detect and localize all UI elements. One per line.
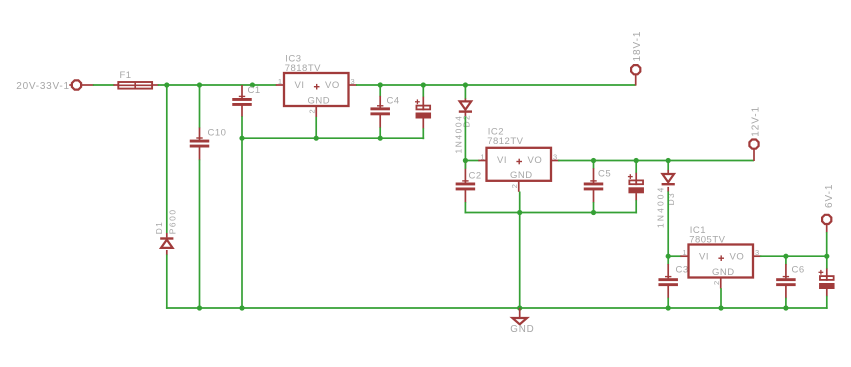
terminal pad 12V-1 <box>749 140 758 149</box>
wire 6V pad stub to output net <box>826 232 828 256</box>
polarized capacitor column upper wire <box>422 85 424 97</box>
svg-text:1N4004: 1N4004 <box>655 185 665 228</box>
svg-text:18V-1: 18V-1 <box>632 31 643 62</box>
capacitor C3 <box>658 277 678 287</box>
fuse F1 left pin stub <box>114 84 119 86</box>
svg-text:12V-1: 12V-1 <box>751 106 762 137</box>
junction GND symbol column / ground rail <box>517 305 522 310</box>
fuse F1 <box>118 82 152 89</box>
IC1 pin 3 <box>753 255 761 257</box>
diode D3 (1N4004) <box>662 174 675 185</box>
diode D2 pin stubs <box>464 99 466 118</box>
pin stub 6V pad <box>826 224 828 232</box>
junction at D1 column on input net <box>164 82 169 87</box>
capacitor C1 pin stubs <box>241 85 243 117</box>
wire input pad to fuse <box>93 84 115 86</box>
capacitor C3 column lower wire <box>667 298 669 308</box>
svg-text:1: 1 <box>278 77 282 86</box>
IC3 pin 1 <box>276 84 284 86</box>
svg-text:7818TV: 7818TV <box>285 63 321 74</box>
input terminal pad 20V-33V-1 <box>72 80 81 89</box>
junction C5 / rail <box>591 210 596 215</box>
svg-text:1: 1 <box>480 153 484 162</box>
voltage regulator IC2 7812TV <box>487 148 552 181</box>
junction near C1 on input net <box>250 82 255 87</box>
junction D3-C3 column / ground rail <box>666 305 671 310</box>
capacitor C2 pin stubs <box>464 161 466 203</box>
capacitor C5 pin stubs <box>593 168 595 202</box>
svg-text:C6: C6 <box>792 265 805 276</box>
ground symbol pin stub <box>519 308 521 318</box>
capacitor C1 column wire down to ground rail <box>241 116 243 308</box>
IC2 pin 1 <box>478 160 486 162</box>
svg-text:GND: GND <box>510 324 534 335</box>
svg-text:7812TV: 7812TV <box>487 136 523 147</box>
svg-text:7805TV: 7805TV <box>689 235 725 246</box>
svg-text:VO: VO <box>730 252 745 263</box>
junction C1 / ground rail <box>239 305 244 310</box>
IC2 pin 2 (GND) <box>518 181 520 192</box>
svg-text:20V-33V-1: 20V-33V-1 <box>16 81 69 92</box>
wire IC2 GND pin down to bottom ground rail <box>519 192 521 309</box>
terminal pad 18V-1 <box>631 65 640 74</box>
svg-text:3: 3 <box>553 153 557 162</box>
junction at polarized cap 2 column <box>634 158 639 163</box>
IC3 pin 3 <box>349 84 357 86</box>
capacitor C3 pin stubs <box>667 264 669 298</box>
capacitor C2 <box>456 181 476 191</box>
svg-text:F1: F1 <box>120 70 132 81</box>
bottom ground rail <box>166 307 828 309</box>
svg-text:VI: VI <box>295 80 305 91</box>
wire fuse to IC3 VI pin <box>158 84 277 86</box>
ground symbol GND <box>512 318 527 324</box>
junction at D2 column <box>463 82 468 87</box>
diode D1 pin stubs <box>166 233 168 255</box>
fuse F1 right pin stub <box>152 84 159 86</box>
pin stub 12V pad <box>753 149 755 161</box>
wire IC3 GND pin to rail <box>315 117 317 138</box>
polarized capacitor 2 column upper wire <box>635 161 637 174</box>
svg-text:2: 2 <box>307 109 316 113</box>
input pad left tick <box>69 84 71 86</box>
polarized capacitor 2 column lower wire <box>635 200 637 213</box>
svg-text:D2: D2 <box>462 114 472 128</box>
capacitor C4 column lower wire <box>379 127 381 138</box>
svg-text:1: 1 <box>682 248 686 257</box>
svg-text:VI: VI <box>699 252 709 263</box>
capacitor C2 upper green segment <box>464 161 466 169</box>
junction at C10 column on input net <box>197 82 202 87</box>
IC1 pin 1 <box>680 255 688 257</box>
polarized capacitor (12V rail) <box>628 174 644 193</box>
svg-text:C10: C10 <box>208 128 227 139</box>
svg-text:P600: P600 <box>167 208 177 234</box>
junction IC2 GND / rail <box>517 210 522 215</box>
polarized capacitor column lower wire <box>422 128 424 139</box>
polarized capacitor 3 column upper wire <box>826 256 828 269</box>
svg-text:GND: GND <box>712 267 735 278</box>
IC2 pin 3 <box>551 160 559 162</box>
svg-text:VO: VO <box>325 80 340 91</box>
capacitor C6 pin stubs <box>785 264 787 298</box>
svg-text:C3: C3 <box>676 265 689 276</box>
terminal pad 6V-1 <box>822 215 831 224</box>
junction C6 / ground rail <box>783 305 788 310</box>
diode D1 (P600) <box>160 237 173 248</box>
diode D3 column lower wire <box>667 191 669 256</box>
capacitor C4 <box>370 106 390 116</box>
svg-text:3: 3 <box>755 248 759 257</box>
svg-text:GND: GND <box>308 95 331 106</box>
capacitor C2 column lower wire <box>464 202 466 213</box>
polarized capacitor (18V rail) <box>415 99 431 118</box>
junction C4 / ground rail <box>378 136 383 141</box>
junction IC1 GND / ground rail <box>718 305 723 310</box>
polarized capacitor 2 pin stubs <box>635 173 637 201</box>
svg-text:2: 2 <box>510 184 519 188</box>
capacitor C5 column upper wire <box>593 161 595 169</box>
wire IC1 GND pin down to ground rail <box>720 288 722 308</box>
junction IC3 GND pin / ground rail <box>314 136 319 141</box>
svg-text:D1: D1 <box>154 221 164 235</box>
capacitor C1 <box>232 96 252 106</box>
junction at polarized cap column <box>421 82 426 87</box>
IC1 text + <box>718 255 724 261</box>
junction at D3 column <box>666 158 671 163</box>
capacitor C4 pin stubs <box>379 96 381 128</box>
pin stub 18V pad <box>635 75 637 86</box>
capacitor C3 upper green segment <box>667 256 669 264</box>
capacitor C5 column lower wire <box>593 202 595 213</box>
capacitor C10 column lower wire <box>199 160 201 309</box>
IC3 ground rail <box>241 137 424 139</box>
junction D2 / C2 / IC2 VI <box>463 158 468 163</box>
capacitor C6 <box>776 277 796 287</box>
IC1 pin 2 (GND) <box>720 278 722 289</box>
diode D3 pin stubs <box>667 170 669 192</box>
svg-text:VI: VI <box>497 155 507 166</box>
svg-text:C1: C1 <box>248 85 261 96</box>
capacitor C5 <box>584 181 604 191</box>
svg-text:2: 2 <box>712 281 721 285</box>
capacitor C10 <box>190 138 210 148</box>
IC2 ground rail <box>465 212 638 214</box>
diode D1 column upper wire <box>166 85 168 233</box>
polarized capacitor (6V rail) <box>819 270 835 289</box>
diode D1 column lower wire <box>166 255 168 309</box>
polarized capacitor 3 column lower wire <box>826 296 828 309</box>
wire junction to IC1 VI pin <box>668 255 681 257</box>
IC2 text + <box>516 159 522 165</box>
junction C10 / ground rail <box>197 305 202 310</box>
junction at 6V terminal / polarized cap 3 <box>824 254 829 259</box>
svg-text:GND: GND <box>510 170 533 181</box>
pin stub from input pad <box>82 84 94 86</box>
polarized capacitor 3 pin stubs <box>826 269 828 297</box>
wire IC3 VO to 18V corner <box>356 84 636 86</box>
junction at C6 column <box>783 254 788 259</box>
capacitor C6 column lower wire <box>785 298 787 308</box>
svg-text:C2: C2 <box>469 171 482 182</box>
svg-text:3: 3 <box>351 77 355 86</box>
svg-text:VO: VO <box>528 155 543 166</box>
diode D2 column upper wire <box>464 85 466 99</box>
junction at C4 column <box>378 82 383 87</box>
svg-text:D3: D3 <box>666 192 676 206</box>
capacitor C6 column upper wire <box>785 256 787 264</box>
wire IC2 VO to 12V corner <box>558 160 754 162</box>
svg-text:C5: C5 <box>598 169 611 180</box>
IC3 pin 2 (GND) <box>315 106 317 117</box>
polarized capacitor pin stubs <box>422 97 424 129</box>
wire IC1 VO to 6V corner <box>760 255 827 257</box>
junction D3 / C3 / IC1 VI <box>666 254 671 259</box>
junction C1 column / IC3 ground rail <box>239 136 244 141</box>
capacitor C10 pin stubs <box>199 128 201 161</box>
IC3 text + <box>314 84 320 90</box>
diode D3 column upper wire <box>667 161 669 171</box>
diode D2 column lower wire <box>464 116 466 160</box>
voltage regulator IC3 7818TV <box>284 73 349 106</box>
wire junction to IC2 VI pin <box>465 160 479 162</box>
capacitor C10 column upper wire <box>199 85 201 128</box>
capacitor C4 column upper wire <box>379 85 381 97</box>
svg-text:6V-1: 6V-1 <box>824 184 835 208</box>
diode D2 (1N4004) <box>459 101 472 112</box>
voltage regulator IC1 7805TV <box>689 245 754 278</box>
svg-text:C4: C4 <box>387 96 400 107</box>
junction at C5 column <box>591 158 596 163</box>
